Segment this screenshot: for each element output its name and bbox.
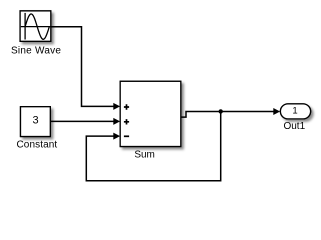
wire: Sine Wave output to Sum input 1 xyxy=(51,27,114,107)
svg-text:Sine Wave: Sine Wave xyxy=(11,46,61,57)
block Constant xyxy=(21,107,51,137)
canvas background xyxy=(0,0,321,192)
arrowhead into Sum port 3 xyxy=(113,133,120,140)
block Out1 (outport) xyxy=(280,104,310,119)
svg-text:Out1: Out1 xyxy=(283,121,305,132)
svg-text:Sum: Sum xyxy=(134,150,155,161)
arrowhead into Sum port 1 xyxy=(113,103,120,110)
sine icon curve xyxy=(25,14,49,39)
svg-text:1: 1 xyxy=(292,105,297,116)
block Sine Wave xyxy=(20,11,51,41)
sine icon horizontal axis xyxy=(21,26,51,28)
wire: feedback loop from junction to Sum input 3 xyxy=(86,111,220,180)
sign + port 1 xyxy=(124,104,129,109)
junction node on output wire xyxy=(219,109,223,113)
svg-text:3: 3 xyxy=(33,114,39,126)
block Sum xyxy=(120,81,181,146)
svg-text:Constant: Constant xyxy=(16,140,57,151)
wire: Sum output with step, to Out1 xyxy=(181,111,274,117)
sign + port 2 xyxy=(124,119,129,124)
arrowhead into Out1 xyxy=(273,108,280,115)
wire: Constant output to Sum input 2 xyxy=(50,120,113,122)
sign - port 3 xyxy=(124,135,129,137)
arrowhead into Sum port 2 xyxy=(113,118,120,125)
sine icon vertical axis xyxy=(24,13,26,40)
